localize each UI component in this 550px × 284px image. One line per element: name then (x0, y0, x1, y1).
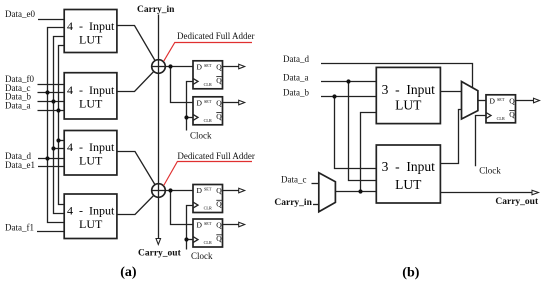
svg-text:Q: Q (509, 110, 515, 119)
svg-text:D: D (490, 97, 496, 106)
wire Data_a to LUT2 (38, 110, 65, 112)
svg-text:3 - Input: 3 - Input (382, 82, 435, 97)
wire FF4 output (223, 224, 239, 226)
svg-text:CLR: CLR (204, 240, 212, 245)
svg-text:D: D (197, 63, 203, 72)
wire shared bus Data_a vertical (59, 46, 65, 205)
wire LUT1 output to adder1 (117, 26, 159, 67)
svg-text:Q: Q (216, 76, 222, 85)
dedicated full adder 1 (152, 60, 166, 74)
wire FFb output (516, 100, 534, 102)
svg-text:Q: Q (216, 186, 222, 195)
wire FF1 output (223, 66, 239, 68)
callout Dedicated Full Adder 1 (164, 31, 255, 61)
carry out arrow (156, 239, 161, 245)
svg-text:Carry_out: Carry_out (495, 197, 539, 207)
junction dot Data_a b (346, 79, 350, 83)
svg-text:4 - Input: 4 - Input (67, 83, 115, 97)
svg-text:Data_a: Data_a (283, 72, 308, 82)
svg-text:Clock: Clock (479, 165, 501, 175)
svg-text:Q: Q (216, 221, 222, 230)
wire Data_c to LUT2 (38, 92, 65, 94)
wire Data_b to LUT1b (321, 96, 376, 98)
callout Dedicated Full Adder 2 (164, 151, 255, 186)
LUT box 3 (64, 131, 117, 176)
junction dot Data_a (56, 108, 60, 112)
svg-text:SET: SET (204, 186, 212, 191)
LUT box 1 (64, 10, 117, 53)
svg-text:Carry_in: Carry_in (274, 198, 312, 208)
svg-text:(b): (b) (402, 266, 419, 281)
svg-text:Q: Q (216, 112, 222, 121)
wire shared bus Data_c vertical (48, 28, 65, 223)
svg-text:LUT: LUT (395, 177, 422, 192)
svg-text:Clock: Clock (191, 251, 213, 261)
junction dot Data_d (45, 156, 49, 160)
wire adder2 output to FF3 (159, 190, 194, 192)
svg-text:3 - Input: 3 - Input (382, 159, 435, 174)
wire branch to FF4 (171, 191, 194, 225)
wire LUT2b output to mux (440, 110, 461, 164)
dedicated full adder 2 (152, 184, 166, 198)
svg-text:D: D (197, 186, 203, 195)
svg-text:CLR: CLR (204, 118, 212, 123)
svg-text:LUT: LUT (79, 96, 103, 110)
junction dot Data_b (51, 99, 55, 103)
svg-text:Carry_in: Carry_in (137, 5, 175, 15)
svg-text:D: D (197, 99, 203, 108)
wire Data_a branch to LUT2b (349, 82, 377, 181)
wire clock net b (476, 116, 487, 167)
wire Data_c to mux (312, 183, 319, 185)
svg-text:SET: SET (204, 99, 212, 104)
svg-text:Dedicated Full Adder: Dedicated Full Adder (177, 31, 254, 41)
flip-flop FFb (486, 95, 516, 123)
LUT box 2b (376, 145, 440, 203)
wire LUT3 output to adder2 (117, 152, 159, 191)
wire branch Data_b to LUT3 (54, 148, 65, 150)
junction dot mux out (358, 189, 362, 193)
svg-text:CLR: CLR (204, 82, 212, 87)
wire adder1 output to FF1 (159, 66, 194, 68)
svg-text:Carry_out: Carry_out (138, 249, 182, 259)
junction dot Data_c (45, 90, 49, 94)
wire mux output branch to LUT1b (361, 113, 377, 192)
LUT box 4 (64, 194, 117, 239)
svg-text:Data_b: Data_b (283, 88, 309, 98)
svg-text:4 - Input: 4 - Input (67, 203, 115, 217)
wire FF3 output (223, 190, 239, 192)
svg-text:LUT: LUT (79, 153, 103, 167)
svg-text:Q: Q (216, 99, 222, 108)
wire mux to FF b (478, 100, 486, 102)
svg-text:LUT: LUT (395, 98, 422, 113)
svg-text:Data_d: Data_d (283, 54, 309, 64)
svg-text:SET: SET (204, 63, 212, 68)
svg-text:CLR: CLR (204, 206, 212, 211)
wire branch to FF2 (171, 67, 194, 103)
junction dot adder1 out (168, 64, 172, 68)
LUT box 1b (376, 67, 440, 123)
wire Data_b branch to LUT2b (335, 97, 377, 169)
svg-text:D: D (197, 221, 203, 230)
wire Data_d to LUT3 (38, 158, 64, 160)
wire LUT1b output to mux (440, 91, 461, 93)
svg-text:Clock: Clock (190, 130, 212, 140)
wire Data_f0 to LUT2 (38, 84, 65, 86)
svg-text:SET: SET (497, 97, 505, 102)
svg-text:Data_a: Data_a (5, 101, 30, 111)
wire Data_d to mux select (321, 64, 473, 88)
svg-text:Q: Q (509, 97, 515, 106)
svg-text:CLR: CLR (497, 116, 505, 121)
svg-text:Dedicated Full Adder: Dedicated Full Adder (177, 151, 254, 161)
junction dot clock top (184, 115, 188, 119)
junction dot LUT3 input a (56, 138, 60, 142)
wire Data_f1 to LUT4 (37, 231, 64, 233)
svg-text:Q: Q (216, 200, 222, 209)
wire LUT2 output to adder1 (117, 67, 159, 92)
svg-text:4 - Input: 4 - Input (67, 140, 115, 154)
wire Data_e0 to LUT1 (38, 19, 64, 21)
wire clock net bottom pair (187, 206, 194, 250)
svg-text:Q: Q (216, 234, 222, 243)
wire mux output to LUT2b (335, 191, 376, 193)
junction dot Data_b b (332, 94, 336, 98)
svg-text:Data_f1: Data_f1 (5, 223, 34, 233)
junction dot LUT3 input b (51, 146, 55, 150)
svg-text:LUT: LUT (79, 217, 103, 231)
wire Data_e1 to LUT3 (38, 166, 64, 168)
flip-flop FF2 (193, 97, 223, 125)
wire clock net top pair (187, 82, 194, 131)
flip-flop FF4 (193, 219, 223, 247)
svg-text:LUT: LUT (79, 32, 103, 46)
wire branch Data_a to LUT3 (59, 140, 65, 142)
svg-text:4 - Input: 4 - Input (67, 19, 115, 33)
svg-text:Data_c: Data_c (281, 174, 306, 184)
wire Data_b to LUT2 (38, 101, 65, 103)
svg-text:Data_e0: Data_e0 (5, 9, 35, 19)
svg-text:Data_e1: Data_e1 (5, 160, 35, 170)
mux output 2to1 (462, 82, 478, 120)
wire carry chain vertical (158, 15, 160, 239)
flip-flop FF3 (193, 185, 223, 213)
flip-flop FF1 (193, 61, 223, 89)
junction dot adder2 out (168, 188, 172, 192)
wire LUT4 output to adder2 (117, 191, 159, 215)
wire shared bus Data_b vertical (54, 37, 65, 214)
svg-text:Q: Q (216, 63, 222, 72)
wire Carry_out b (440, 192, 532, 194)
wire FF2 output (223, 102, 239, 104)
svg-text:(a): (a) (120, 265, 137, 280)
wire Data_a to LUT1b (321, 81, 376, 83)
LUT box 2 (64, 73, 117, 119)
mux carry select (319, 173, 336, 212)
svg-text:SET: SET (204, 221, 212, 226)
wire Carry_in to mux (313, 204, 319, 206)
junction dot clock bottom (184, 237, 188, 241)
